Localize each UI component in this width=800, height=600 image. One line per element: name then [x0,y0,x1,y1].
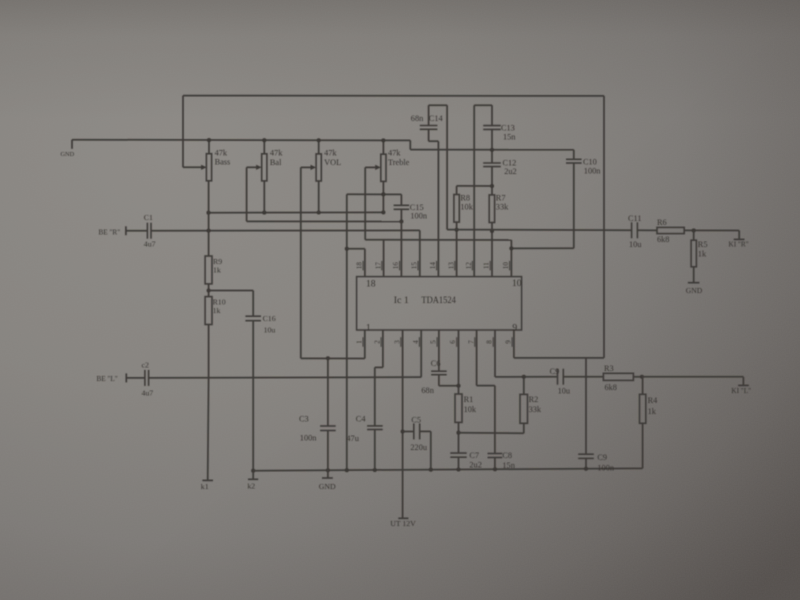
svg-text:5: 5 [430,340,438,344]
svg-text:C8: C8 [502,451,512,460]
svg-text:VOL: VOL [324,158,341,167]
svg-text:10u: 10u [558,386,570,395]
svg-text:220u: 220u [410,443,427,452]
svg-text:10: 10 [502,262,510,270]
svg-text:Bass: Bass [215,158,231,167]
svg-text:18: 18 [366,279,376,290]
svg-text:C16: C16 [263,314,276,323]
svg-text:KI "L": KI "L" [731,387,751,395]
svg-text:BE "L": BE "L" [97,375,118,383]
svg-text:3: 3 [393,340,401,344]
svg-text:4: 4 [412,340,420,344]
svg-text:15n: 15n [502,461,515,470]
svg-text:1: 1 [366,323,371,334]
svg-text:4u7: 4u7 [142,388,154,397]
svg-text:2u2: 2u2 [504,167,516,176]
svg-text:6k8: 6k8 [605,383,617,392]
svg-text:16: 16 [392,262,400,270]
svg-text:Ic 1: Ic 1 [394,295,409,306]
svg-text:c2: c2 [142,361,149,370]
svg-text:GND: GND [319,482,336,491]
svg-text:9: 9 [512,322,517,333]
svg-text:6: 6 [449,340,457,344]
svg-text:R6: R6 [657,218,667,227]
svg-text:R8: R8 [460,194,470,203]
svg-text:C7: C7 [469,451,479,460]
svg-text:11: 11 [483,262,491,269]
svg-text:33k: 33k [496,202,509,211]
svg-text:15: 15 [411,262,419,270]
svg-text:1k: 1k [213,265,221,274]
svg-text:C14: C14 [429,114,444,123]
svg-text:10k: 10k [460,202,473,211]
svg-text:14: 14 [429,262,437,270]
svg-text:C9: C9 [550,367,560,376]
svg-text:Treble: Treble [388,158,410,167]
svg-text:100n: 100n [597,463,614,472]
svg-text:9: 9 [505,340,513,344]
svg-text:10: 10 [512,278,522,289]
svg-text:2u2: 2u2 [469,461,481,470]
svg-text:BE "R": BE "R" [99,228,121,236]
svg-text:k1: k1 [201,482,209,491]
svg-text:100n: 100n [410,212,427,221]
svg-text:R7: R7 [496,194,506,203]
svg-text:18: 18 [356,262,364,270]
svg-text:2: 2 [374,340,382,344]
svg-text:R10: R10 [213,297,226,306]
svg-text:100n: 100n [584,167,601,176]
svg-text:17: 17 [374,262,382,270]
svg-text:33k: 33k [529,405,542,414]
svg-text:C6: C6 [431,359,441,368]
svg-text:KI "R": KI "R" [729,241,749,249]
svg-text:68n: 68n [411,114,424,123]
svg-text:7: 7 [467,340,475,344]
svg-text:1k: 1k [698,250,707,259]
svg-text:4u7: 4u7 [144,239,156,248]
svg-text:R1: R1 [464,395,474,404]
svg-text:C1: C1 [144,213,153,222]
svg-text:68n: 68n [421,386,434,395]
svg-text:R4: R4 [648,396,659,405]
svg-text:1k: 1k [213,306,221,315]
svg-text:C3: C3 [299,414,309,423]
svg-text:GND: GND [686,286,703,295]
svg-text:C4: C4 [356,414,367,423]
svg-text:8: 8 [486,340,494,344]
svg-text:13: 13 [447,262,455,270]
svg-text:Bal: Bal [270,158,282,167]
svg-text:6k8: 6k8 [657,235,669,244]
svg-text:C13: C13 [501,123,515,132]
svg-text:k2: k2 [247,482,255,491]
svg-text:100n: 100n [300,434,317,443]
svg-text:1k: 1k [648,407,657,416]
svg-text:GND: GND [61,151,75,158]
svg-text:47k: 47k [388,149,401,158]
svg-text:47k: 47k [215,148,228,157]
svg-text:1: 1 [356,340,364,344]
svg-text:12: 12 [465,262,473,270]
svg-text:C11: C11 [628,214,642,223]
svg-text:R2: R2 [529,395,539,404]
svg-text:C10: C10 [583,158,597,167]
svg-text:C5: C5 [411,416,421,425]
svg-text:R3: R3 [604,364,614,373]
svg-text:R5: R5 [698,240,708,249]
svg-text:UT 12V: UT 12V [390,519,416,528]
svg-text:47k: 47k [324,149,337,158]
svg-text:15n: 15n [503,133,516,142]
svg-text:10u: 10u [264,325,276,334]
svg-text:10u: 10u [629,240,641,249]
svg-text:TDA1524: TDA1524 [421,295,456,306]
svg-text:47u: 47u [346,434,358,443]
svg-text:C9: C9 [597,453,607,462]
svg-text:10k: 10k [464,405,477,414]
svg-text:47k: 47k [270,149,283,158]
